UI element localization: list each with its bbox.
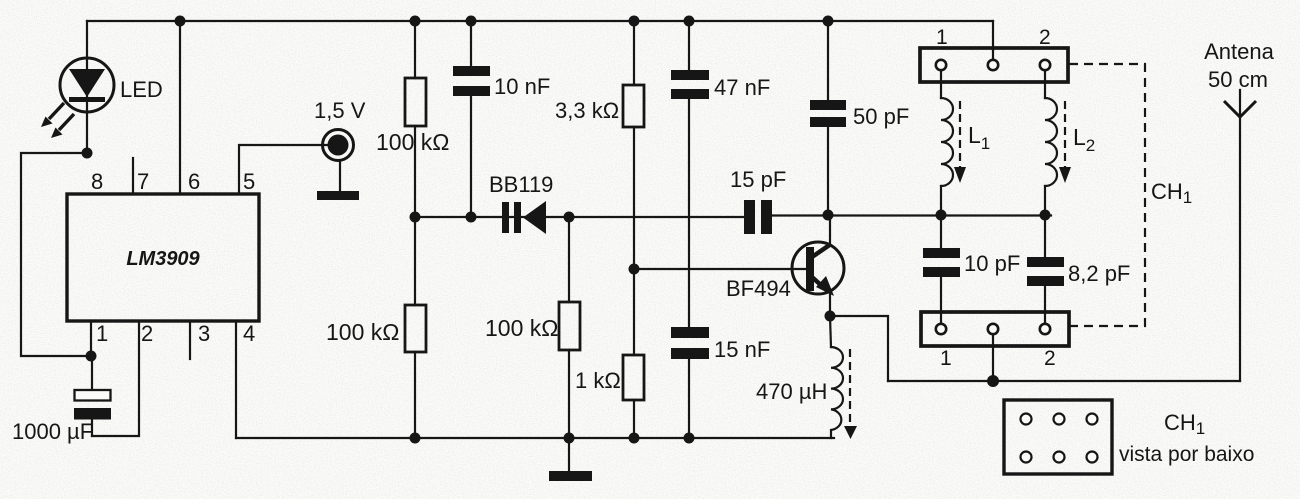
pin 5 wire to battery jack [239,145,330,194]
svg-text:8: 8 [91,169,103,194]
pin 2 wire [92,321,139,436]
svg-text:BB119: BB119 [489,172,553,197]
trimming arrow L1 [954,101,966,183]
node L2 tank rail [1040,210,1051,221]
inductor L1 [941,82,953,215]
resistor R4 3,3k [623,21,644,355]
svg-text:1 kΩ: 1 kΩ [575,368,621,393]
svg-text:7: 7 [137,169,149,194]
pin 3 stub [189,321,191,359]
IC U1 LM3909 [67,194,259,321]
capacitor C1 1000uF electrolytic [74,356,111,436]
diode BB119 varicap [502,201,546,234]
node pin6/top rail [175,16,186,27]
wire emitter to antenna rail [830,316,888,381]
svg-text:2: 2 [1044,347,1056,370]
svg-text:6: 6 [188,169,200,194]
antenna [1224,90,1256,381]
wire top rail drop to CH1 top middle pin [992,21,994,50]
node LED cathode / pin 8 [82,148,93,159]
wire top supply rail [87,20,993,22]
node R4/top rail [629,16,640,27]
node R1/R2 varicap row [410,212,421,223]
wire tank rail [772,214,1051,216]
ground at battery jack [317,161,359,200]
svg-text:1,5 V: 1,5 V [314,98,366,123]
pin 6 wire to top rail [179,21,181,194]
node L1 tank rail [936,210,947,221]
svg-text:50 pF: 50 pF [853,104,909,129]
node C2/top rail [466,16,477,27]
capacitor C5 15pF [744,200,772,234]
svg-text:10 pF: 10 pF [964,251,1020,276]
node R2/bottom rail [410,433,421,444]
wire varicap row [415,216,744,218]
wire feedback loop to pin 1 [21,153,91,356]
svg-text:15 nF: 15 nF [714,337,770,362]
svg-text:3,3 kΩ: 3,3 kΩ [555,98,619,123]
pin 4 wire to bottom rail [235,321,237,438]
resistor R3 100k [559,217,580,438]
wire antenna rail [888,380,1240,382]
svg-text:1: 1 [96,321,108,346]
resistor R5 1k [623,355,644,438]
LED [41,58,114,138]
svg-text:2: 2 [141,321,153,346]
node pin 1 / C1 [86,351,97,362]
wire bottom rail [236,437,834,439]
node C3/top rail [684,16,695,27]
svg-text:2: 2 [1039,26,1051,49]
node R3 varicap row [564,212,575,223]
capacitor C4 15nF [671,327,709,438]
svg-text:100 kΩ: 100 kΩ [485,315,558,341]
svg-text:LM3909: LM3909 [126,248,200,270]
capacitor C3 47nF [671,21,709,327]
svg-text:10 nF: 10 nF [494,74,550,99]
svg-text:8,2 pF: 8,2 pF [1068,261,1130,286]
trimming arrow L2 [1059,101,1071,183]
svg-text:470 µH: 470 µH [756,379,827,404]
svg-text:3: 3 [198,321,210,346]
node R5/bottom rail [629,433,640,444]
wire bottom connector middle pin [992,346,994,381]
connector CH1 bottom view [1004,400,1112,474]
battery jack 1,5 V [323,130,354,161]
inductor L3 470uH [830,316,843,438]
svg-text:vista por baixo: vista por baixo [1119,443,1254,466]
node R3/bottom rail [564,433,575,444]
svg-text:LED: LED [120,77,163,102]
svg-text:4: 4 [243,321,255,346]
resistor R2 100k [405,217,426,438]
trimming arrow 470uH [844,349,857,439]
capacitor C2 10nF [453,21,490,217]
node base row R4/R5 [629,264,640,275]
ground at bottom rail [549,438,592,481]
wire base row [634,268,806,270]
node antenna rail [987,375,999,387]
dashed outline CH1 [1069,64,1145,326]
svg-text:5: 5 [243,169,255,194]
node C4/bottom rail [684,433,695,444]
svg-text:50 cm: 50 cm [1208,67,1268,92]
connector CH1 bottom half [921,312,1069,346]
node C2 varicap row [466,212,477,223]
pin 1 wire [90,321,92,356]
connector CH1 top half [920,48,1068,83]
svg-text:1000 µF: 1000 µF [12,419,93,444]
capacitor C8 8,2pF [1027,215,1064,313]
svg-text:15 pF: 15 pF [730,167,786,192]
node collector/C5/C6 [823,210,834,221]
resistor R1 100k [405,21,426,217]
node R1/top rail [410,16,421,27]
capacitor C7 10pF [923,215,960,313]
node C6/top rail [823,16,834,27]
svg-text:100 kΩ: 100 kΩ [376,129,449,155]
node emitter [825,311,836,322]
wire LED branch [86,21,88,153]
svg-text:100 kΩ: 100 kΩ [326,319,399,345]
svg-text:Antena: Antena [1204,39,1274,64]
capacitor C6 50pF [810,21,846,215]
svg-text:47 nF: 47 nF [714,75,770,100]
transistor Q1 BF494 [792,215,844,316]
inductor L2 [1045,82,1057,215]
pin 7 stub [132,158,134,194]
svg-text:1: 1 [936,26,948,49]
svg-text:BF494: BF494 [726,276,791,301]
svg-text:1: 1 [940,347,952,370]
